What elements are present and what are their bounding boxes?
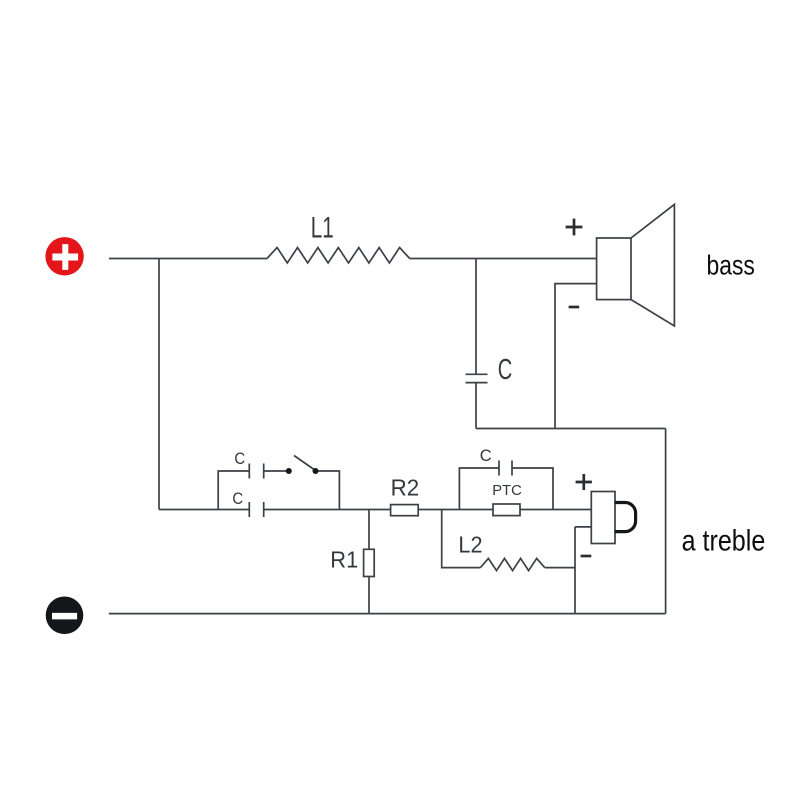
svg-text:C: C — [232, 490, 243, 508]
svg-text:bass: bass — [707, 250, 755, 281]
svg-text:a treble: a treble — [682, 523, 766, 556]
svg-text:PTC: PTC — [492, 483, 522, 499]
svg-text:C: C — [498, 355, 513, 386]
svg-text:R1: R1 — [330, 547, 358, 573]
svg-text:L1: L1 — [311, 212, 334, 245]
svg-text:C: C — [234, 450, 245, 468]
svg-text:L2: L2 — [458, 532, 482, 558]
svg-text:R2: R2 — [391, 474, 420, 501]
svg-text:C: C — [480, 447, 492, 465]
